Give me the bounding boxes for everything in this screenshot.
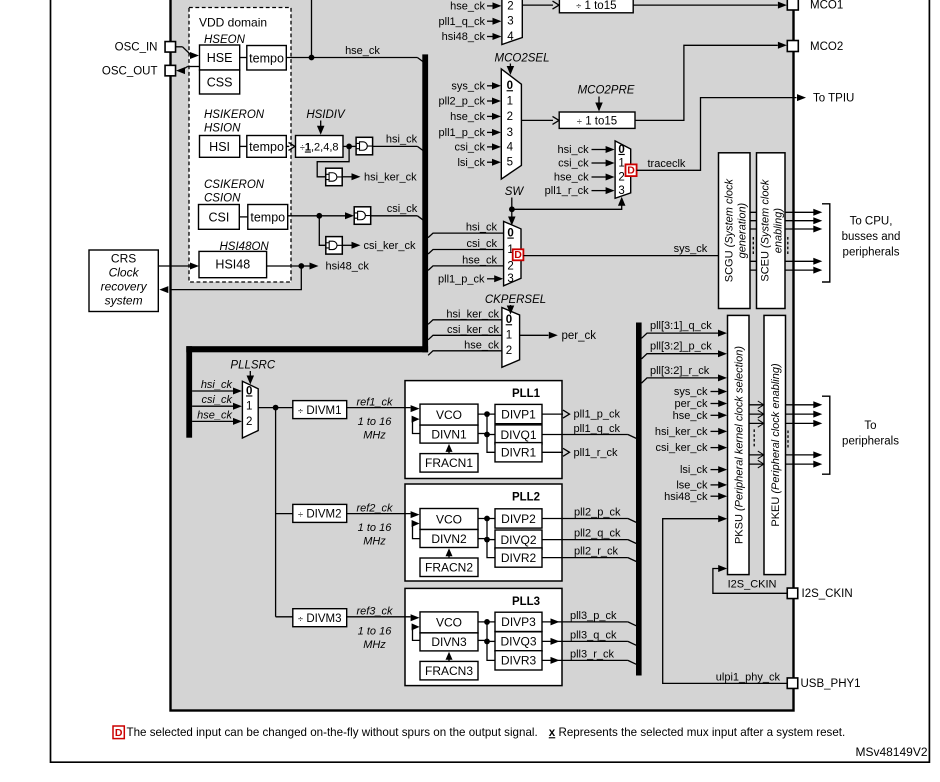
svg-text:MCO1: MCO1 [810,0,843,12]
svg-text:tempo: tempo [249,51,284,65]
svg-text:CRS: CRS [111,252,136,266]
svg-text:csi_ck: csi_ck [387,203,418,215]
svg-text:FRACN3: FRACN3 [425,664,473,678]
svg-text:pll[3:2]_r_ck: pll[3:2]_r_ck [650,365,710,377]
svg-text:tempo: tempo [249,140,284,154]
svg-text:5: 5 [507,157,513,169]
svg-text:VCO: VCO [436,512,462,526]
svg-text:0: 0 [507,80,513,92]
svg-text:peripherals: peripherals [842,436,899,448]
svg-text:CSS: CSS [207,76,233,90]
svg-text:hsi_ker_ck: hsi_ker_ck [446,308,499,320]
svg-text:pll1_q_ck: pll1_q_ck [574,423,621,435]
svg-text:SCGU (System clock: SCGU (System clock [723,178,735,282]
svg-text:HSI: HSI [209,140,230,154]
svg-text:hsi48_ck: hsi48_ck [442,31,486,43]
svg-text:÷ DIVM1: ÷ DIVM1 [298,405,342,417]
svg-text:DIVR1: DIVR1 [501,446,537,460]
svg-text:pll2_q_ck: pll2_q_ck [574,528,621,540]
svg-text:1 to 16: 1 to 16 [358,522,393,534]
svg-text:tempo: tempo [250,210,285,224]
svg-text:1 to 16: 1 to 16 [358,625,393,637]
svg-text:pll1_p_ck: pll1_p_ck [438,273,485,285]
svg-text:recovery: recovery [101,280,148,294]
svg-text:PLL3: PLL3 [512,596,540,608]
svg-text:pll2_r_ck: pll2_r_ck [574,546,619,558]
svg-text:1: 1 [618,157,624,169]
svg-text:CSIKERON: CSIKERON [204,179,265,191]
svg-text:busses and: busses and [842,231,901,243]
svg-text:pll[3:2]_p_ck: pll[3:2]_p_ck [650,341,712,353]
svg-text:2: 2 [246,416,252,428]
svg-text:pll3_p_ck: pll3_p_ck [570,610,617,622]
svg-text:hse_ck: hse_ck [462,254,497,266]
svg-text:OSC_IN: OSC_IN [115,42,158,54]
svg-text:0: 0 [246,385,252,397]
svg-text:pll1_p_ck: pll1_p_ck [574,409,621,421]
svg-text:2: 2 [507,260,513,272]
svg-text:To TPIU: To TPIU [813,93,854,105]
svg-text:hsi_ck: hsi_ck [201,379,233,391]
svg-text:I2S_CKIN: I2S_CKIN [728,579,777,591]
svg-text:To CPU,: To CPU, [850,215,893,227]
svg-text:FRACN1: FRACN1 [425,456,473,470]
svg-text:2: 2 [506,345,512,357]
svg-text:PLL2: PLL2 [512,492,540,504]
svg-text:ref3_ck: ref3_ck [356,606,393,618]
svg-text:PKSU (Peripheral kernel clock: PKSU (Peripheral kernel clock selection) [733,346,745,544]
svg-text:3: 3 [507,273,513,285]
svg-text:csi_ker_ck: csi_ker_ck [656,442,708,454]
svg-text:HSE: HSE [207,51,233,65]
svg-text:csi_ker_ck: csi_ker_ck [364,240,416,252]
svg-text:lse_ck: lse_ck [676,480,708,492]
svg-text:÷ DIVM3: ÷ DIVM3 [298,613,342,625]
svg-text:VCO: VCO [436,408,462,422]
svg-text:HSIKERON: HSIKERON [204,109,265,121]
svg-text:FRACN2: FRACN2 [425,561,473,575]
svg-text:CSI: CSI [208,210,229,224]
svg-text:hse_ck: hse_ck [464,339,499,351]
svg-text:OSC_OUT: OSC_OUT [102,66,158,78]
svg-text:MCO2SEL: MCO2SEL [495,53,550,65]
svg-text:MHz: MHz [363,536,386,548]
svg-text:The selected input can be chan: The selected input can be changed on-the… [127,726,538,739]
svg-text:3: 3 [507,127,513,139]
svg-text:HSEON: HSEON [204,34,246,46]
svg-text:lsi_ck: lsi_ck [457,157,485,169]
svg-text:D: D [115,727,123,739]
svg-text:I2S_CKIN: I2S_CKIN [802,588,853,600]
svg-text:HSI48: HSI48 [215,258,250,272]
svg-text:hsi48_ck: hsi48_ck [664,491,708,503]
svg-text:÷ DIVM2: ÷ DIVM2 [298,509,342,521]
svg-text:csi_ker_ck: csi_ker_ck [447,324,499,336]
svg-text:DIVQ1: DIVQ1 [500,428,536,442]
svg-text:1: 1 [507,95,513,107]
svg-text:hsi_ck: hsi_ck [466,222,498,234]
svg-text:hsi_ck: hsi_ck [558,144,590,156]
svg-text:CSION: CSION [204,193,241,205]
svg-text:pll3_r_ck: pll3_r_ck [570,648,615,660]
svg-text:hse_ck: hse_ck [450,1,485,13]
svg-text:1: 1 [506,330,512,342]
svg-text:lsi_ck: lsi_ck [680,464,708,476]
svg-text:2: 2 [507,111,513,123]
svg-text:hse_ck: hse_ck [673,410,708,422]
svg-text:SW: SW [505,186,525,198]
svg-text:÷1,2,4,8: ÷1,2,4,8 [300,142,339,154]
svg-text:hsi_ker_ck: hsi_ker_ck [364,171,417,183]
svg-text:sys_ck: sys_ck [674,386,708,398]
svg-text:USB_PHY1: USB_PHY1 [801,678,861,690]
svg-text:enabling): enabling) [772,208,784,254]
svg-text:pll2_p_ck: pll2_p_ck [439,96,486,108]
svg-text:2: 2 [507,0,513,12]
svg-text:VDD domain: VDD domain [199,16,267,30]
svg-text:csi_ck: csi_ck [454,142,485,154]
svg-text:traceclk: traceclk [648,158,686,170]
svg-text:Clock: Clock [109,266,140,280]
svg-text:VCO: VCO [436,616,462,630]
svg-text:MCO2PRE: MCO2PRE [578,85,635,97]
svg-text:csi_ck: csi_ck [558,158,589,170]
svg-text:2: 2 [618,171,624,183]
svg-text:hsi48_ck: hsi48_ck [326,261,370,273]
svg-text:PKEU (Peripheral clock enablin: PKEU (Peripheral clock enabling) [770,363,782,527]
svg-text:D: D [514,249,522,261]
svg-text:D: D [627,165,635,177]
svg-text:per_ck: per_ck [674,398,708,410]
svg-text:PLLSRC: PLLSRC [230,359,275,371]
svg-text:DIVR3: DIVR3 [501,654,537,668]
svg-text:0: 0 [507,228,513,240]
svg-text:DIVP2: DIVP2 [501,512,536,526]
svg-text:generation): generation) [736,202,748,258]
svg-text:÷ 1 to15: ÷ 1 to15 [576,0,616,12]
svg-text:HSION: HSION [204,123,241,135]
svg-text:HSIDIV: HSIDIV [306,109,346,121]
svg-text:MHz: MHz [363,430,386,442]
svg-text:÷ 1 to15: ÷ 1 to15 [577,115,617,127]
svg-text:csi_ck: csi_ck [466,238,497,250]
svg-text:ref2_ck: ref2_ck [356,502,393,514]
svg-text:CKPERSEL: CKPERSEL [485,294,546,306]
svg-text:peripherals: peripherals [843,247,900,259]
svg-text:DIVP1: DIVP1 [501,407,536,421]
svg-text:hse_ck: hse_ck [450,111,485,123]
svg-text:system: system [105,294,143,308]
svg-text:pll1_q_ck: pll1_q_ck [439,16,486,28]
svg-text:hsi_ker_ck: hsi_ker_ck [655,426,708,438]
svg-text:3: 3 [507,16,513,28]
svg-text:0: 0 [506,314,512,326]
svg-text:1 to 16: 1 to 16 [358,416,393,428]
svg-text:4: 4 [507,141,514,153]
svg-text:hse_ck: hse_ck [197,409,232,421]
svg-text:To: To [864,420,876,432]
svg-text:pll1_r_ck: pll1_r_ck [574,447,619,459]
svg-text:0: 0 [618,144,624,156]
svg-text:hse_ck: hse_ck [554,172,589,184]
svg-text:sys_ck: sys_ck [451,80,485,92]
svg-text:PLL1: PLL1 [512,388,541,400]
svg-text:MSv48149V2: MSv48149V2 [855,745,927,759]
svg-text:pll1_p_ck: pll1_p_ck [439,127,486,139]
svg-text:sys_ck: sys_ck [674,243,708,255]
svg-text:4: 4 [507,31,514,43]
svg-text:DIVN2: DIVN2 [431,532,467,546]
svg-text:per_ck: per_ck [562,330,597,342]
svg-text:DIVQ2: DIVQ2 [500,533,536,547]
svg-text:hsi_ck: hsi_ck [386,134,418,146]
svg-text:pll2_p_ck: pll2_p_ck [574,507,621,519]
svg-text:pll[3:1]_q_ck: pll[3:1]_q_ck [650,320,712,332]
svg-text:3: 3 [618,185,624,197]
svg-text:SCEU (System clock: SCEU (System clock [759,179,771,282]
svg-text:ulpi1_phy_ck: ulpi1_phy_ck [716,672,781,684]
svg-text:DIVR2: DIVR2 [501,551,537,565]
svg-text:MCO2: MCO2 [810,41,843,53]
svg-text:DIVQ3: DIVQ3 [500,635,536,649]
svg-text:DIVP3: DIVP3 [501,615,536,629]
svg-text:pll3_q_ck: pll3_q_ck [570,629,617,641]
svg-text:ref1_ck: ref1_ck [356,396,393,408]
svg-text:csi_ck: csi_ck [201,394,232,406]
svg-text:hse_ck: hse_ck [345,45,380,57]
svg-text:1: 1 [246,401,252,413]
svg-text:MHz: MHz [363,639,386,651]
svg-text:x Represents the selected mux: x Represents the selected mux input afte… [549,726,845,739]
svg-text:DIVN3: DIVN3 [431,635,467,649]
svg-text:pll1_r_ck: pll1_r_ck [545,185,590,197]
svg-text:DIVN1: DIVN1 [431,427,467,441]
